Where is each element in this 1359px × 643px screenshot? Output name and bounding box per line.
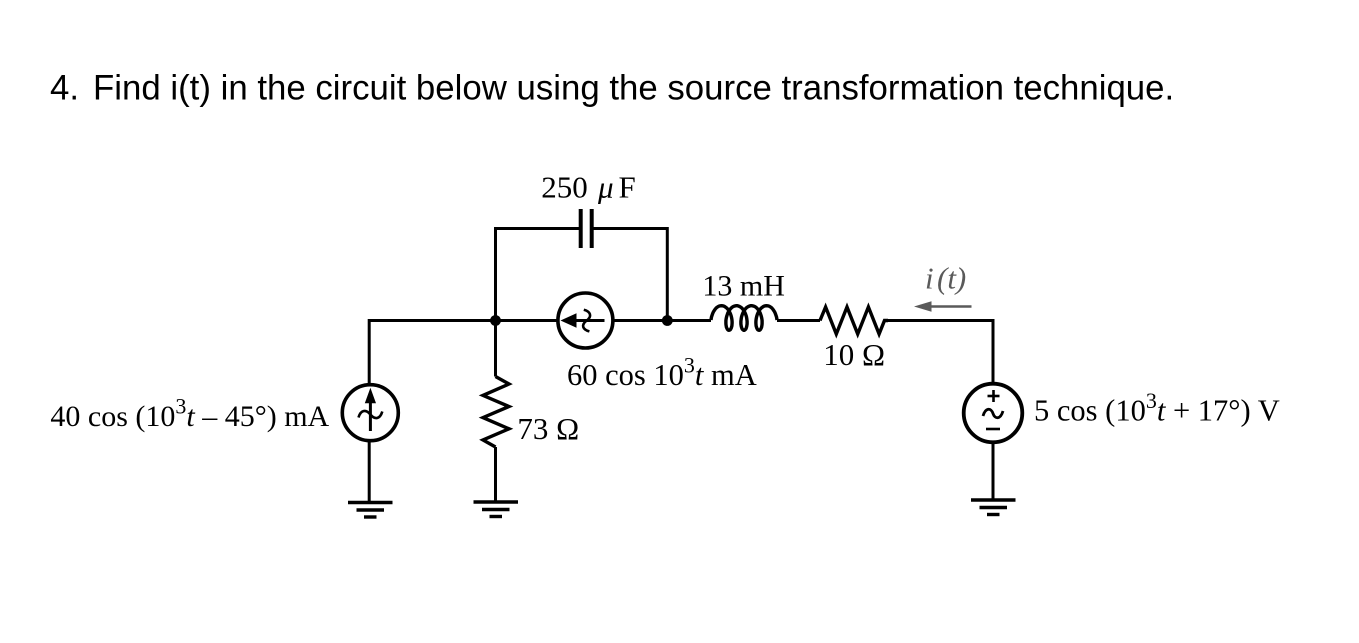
wire: capacitor top wire left segment: [494, 227, 580, 230]
svg-text:73 Ω: 73 Ω: [517, 411, 579, 446]
wire: resistor 73 bottom to middle ground: [494, 447, 497, 502]
wire: main horizontal bus from left vertical to middle source: [369, 319, 557, 322]
wire: voltage source bottom to right ground: [992, 443, 995, 501]
wire: capacitor top wire right segment: [592, 227, 667, 230]
current source I1 circle: [342, 385, 398, 441]
current source I1 sine squiggle: [359, 411, 383, 418]
svg-text:13 mH: 13 mH: [702, 269, 785, 302]
svg-text:4.Find i(t) in the circuit bel: 4.Find i(t) in the circuit below using t…: [50, 69, 1174, 108]
inductor L1 13mH coil: [711, 306, 777, 331]
svg-text:10 Ω: 10 Ω: [823, 337, 885, 372]
wire: capacitor loop left vertical (node A up): [494, 229, 497, 321]
capacitor C1 250uF plates: [579, 209, 583, 248]
node A junction dot: [490, 315, 501, 326]
svg-text:5 cos (103t + 17°) V: 5 cos (103t + 17°) V: [1034, 388, 1280, 428]
wire: node B to inductor left lead: [669, 319, 711, 322]
resistor R2 73ohm vertical zigzag: [483, 377, 509, 448]
current direction arrow (gray): [929, 305, 972, 308]
current source I2 circle: [558, 293, 613, 348]
svg-text:40 cos (103t – 45°) mA: 40 cos (103t – 45°) mA: [50, 394, 329, 434]
wire: resistor 10 to top-right corner, down to voltage source top: [888, 321, 993, 385]
wire: middle source right side to node B: [613, 319, 669, 322]
wire: left source bottom to left ground: [368, 442, 371, 503]
ground left: [348, 503, 393, 518]
current source I1 arrow shaft: [369, 402, 372, 431]
current source I1 arrow head: [365, 388, 376, 403]
wire: node A down to resistor 73 top: [494, 321, 497, 377]
current source I2 arrow shaft: [574, 319, 605, 322]
wire: inductor right lead to resistor 10: [777, 319, 820, 322]
voltage source V1 minus sign: [986, 428, 1000, 431]
ground right: [971, 500, 1016, 515]
resistor R1 10ohm zigzag: [820, 307, 888, 334]
voltage source V1 sine symbol: [983, 409, 1003, 417]
svg-text:60 cos 103t mA: 60 cos 103t mA: [567, 353, 757, 393]
svg-text:i(t): i(t): [925, 261, 966, 296]
voltage source V1 plus sign: [988, 390, 1000, 402]
wire: capacitor loop right vertical (down to node B): [666, 227, 669, 321]
current source I2 sine squiggle: [583, 310, 590, 332]
voltage source V1 circle: [964, 384, 1023, 443]
wire: left vertical from bus down to left source top: [368, 319, 371, 384]
current source I2 arrow head: [561, 313, 577, 327]
ground middle: [474, 502, 519, 517]
node B junction dot: [662, 315, 673, 326]
